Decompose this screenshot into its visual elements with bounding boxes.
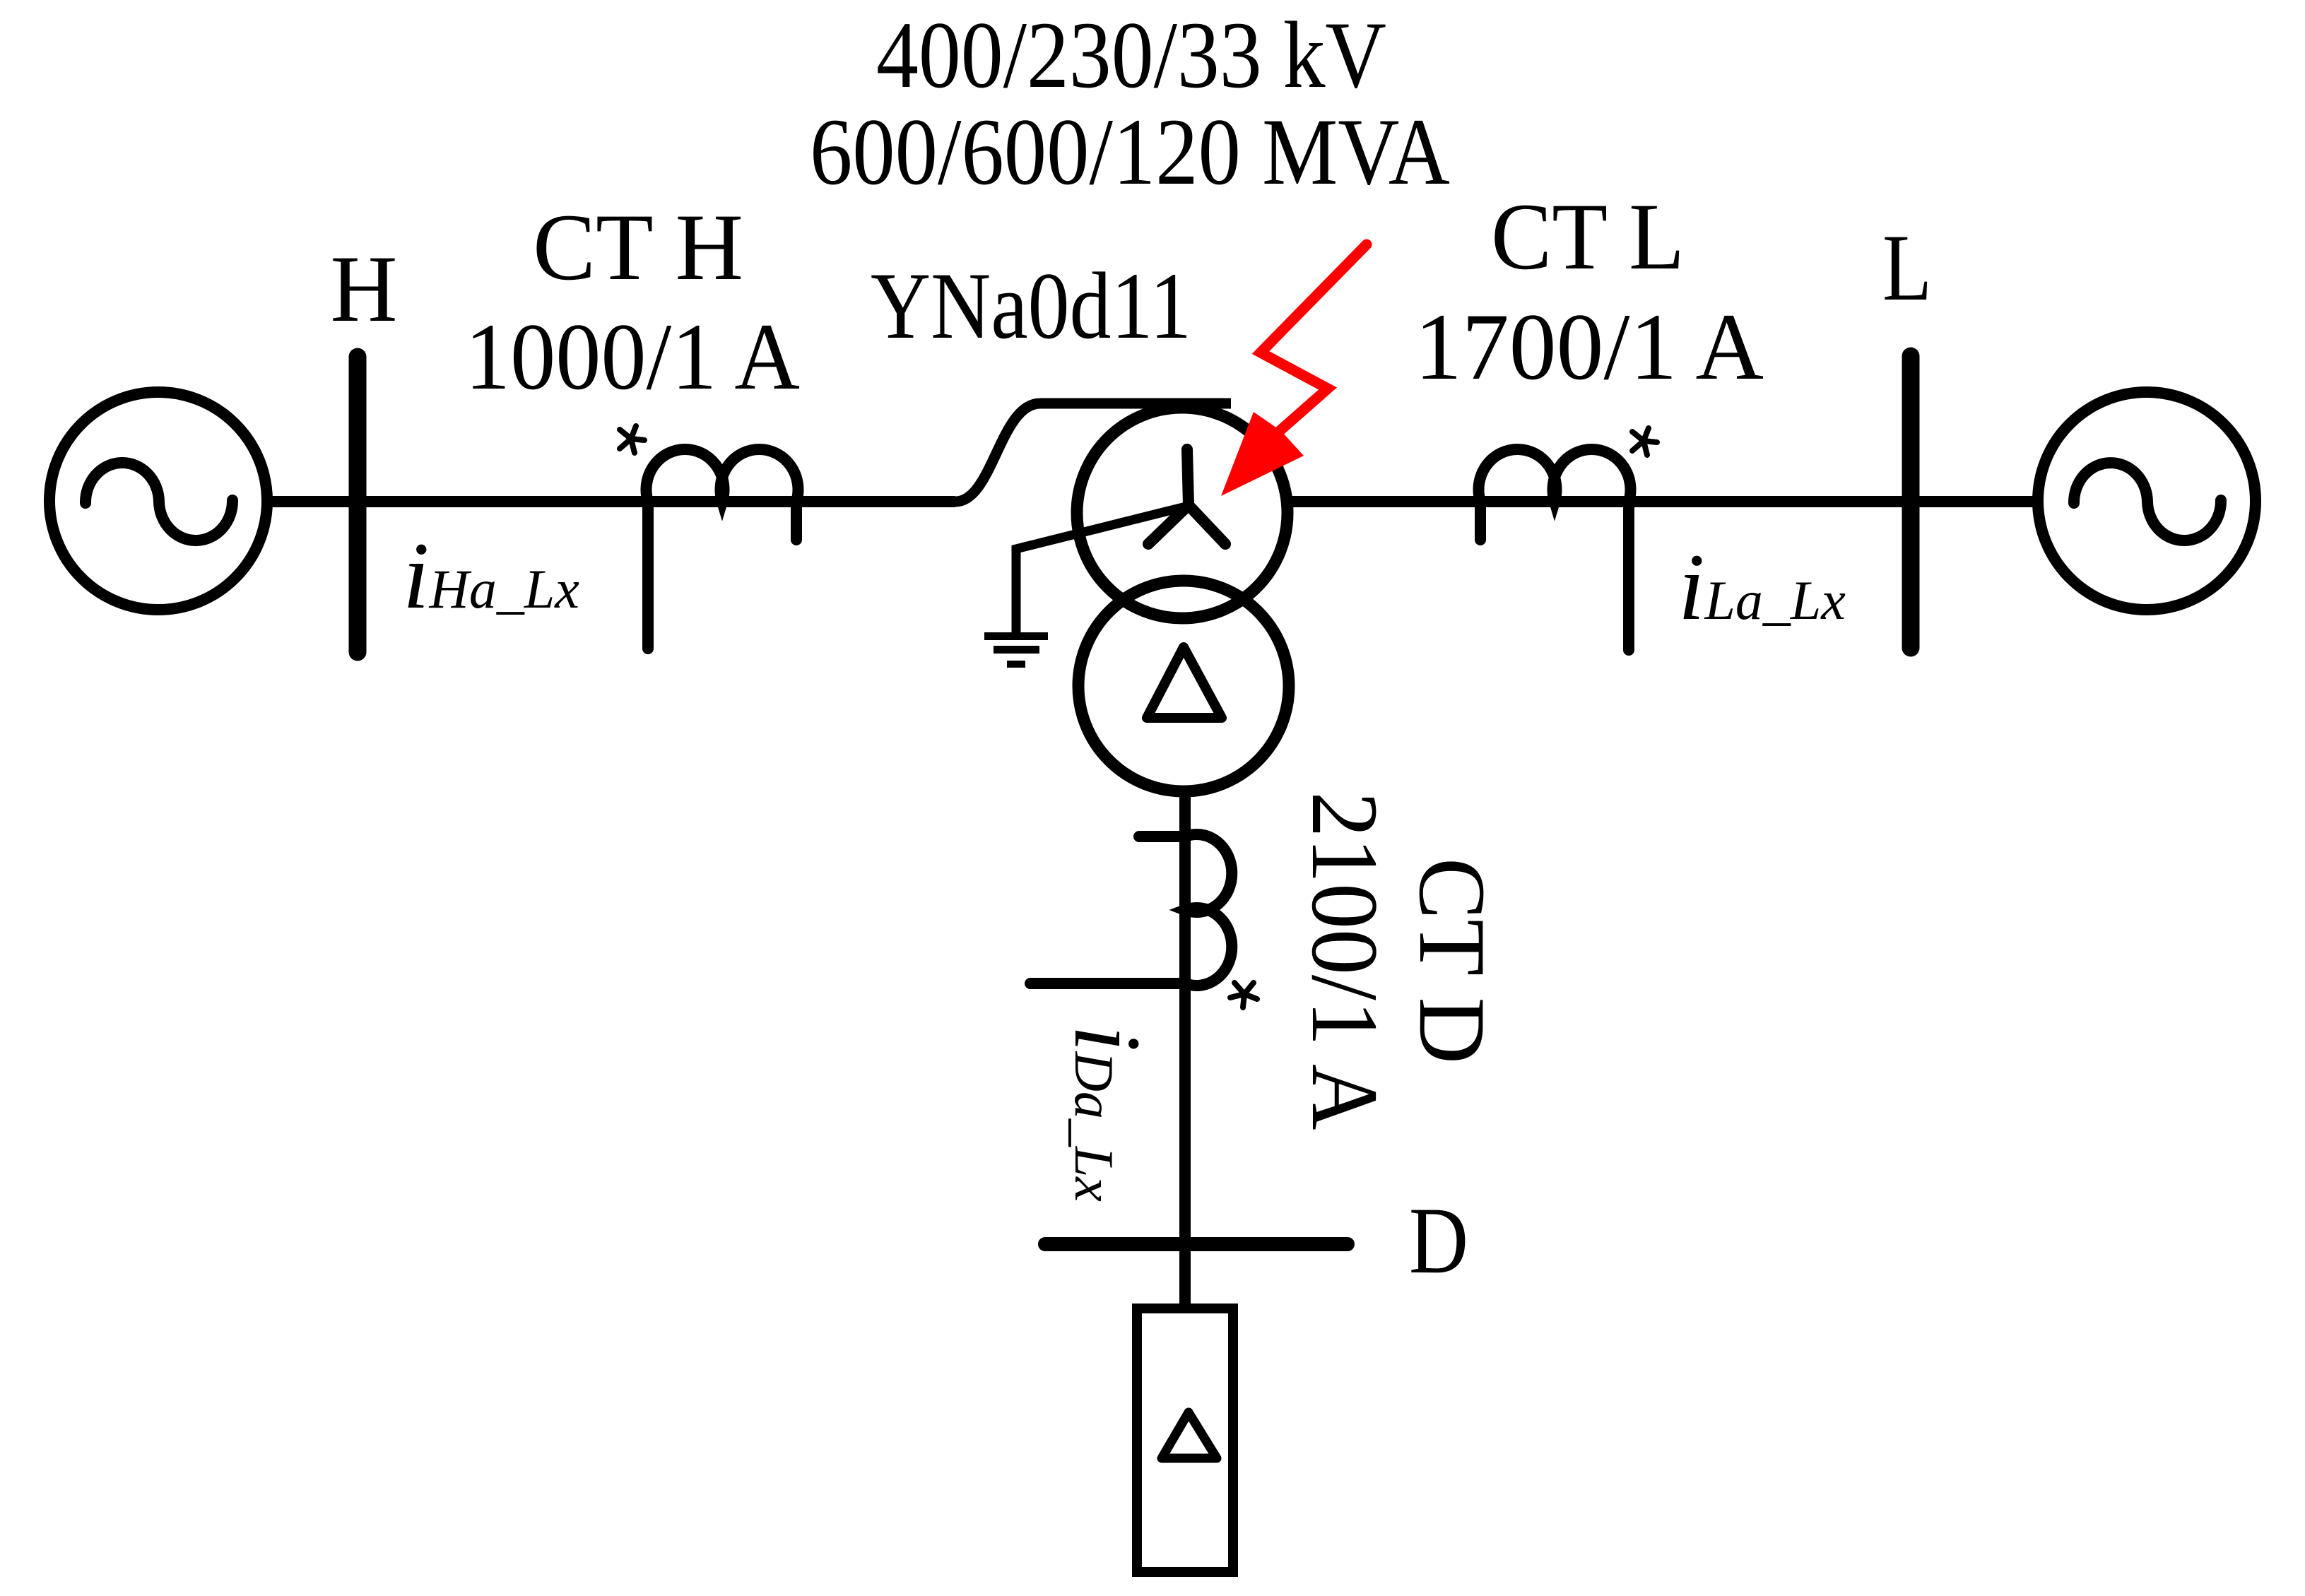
svg-text:D: D bbox=[1409, 1188, 1468, 1294]
wire: G1 to transformer (H side) bbox=[267, 496, 955, 507]
source G1 sine symbol bbox=[86, 463, 232, 540]
svg-text:L: L bbox=[1882, 215, 1932, 321]
svg-text:YNa0d11: YNa0d11 bbox=[871, 254, 1191, 359]
delta symbol bbox=[1147, 647, 1222, 718]
svg-text:600/600/120 MVA: 600/600/120 MVA bbox=[810, 100, 1450, 205]
svg-text:1000/1 A: 1000/1 A bbox=[465, 305, 800, 410]
wire: transformer bottom (D side) bbox=[1179, 791, 1191, 1308]
svg-text:CT L: CT L bbox=[1491, 184, 1685, 290]
ground symbol bbox=[984, 632, 1048, 668]
source G1 (left generator circle) bbox=[49, 392, 267, 610]
load (rectangle with delta) bbox=[1137, 1308, 1233, 1572]
transformer Y winding circle bbox=[1077, 408, 1287, 618]
svg-text:H: H bbox=[331, 237, 398, 342]
CT L polarity mark * bbox=[1632, 428, 1657, 455]
busbar D bbox=[1045, 1237, 1348, 1251]
svg-text:2100/1 A: 2100/1 A bbox=[1292, 792, 1397, 1130]
Y (wye) symbol bbox=[1148, 449, 1225, 544]
load delta symbol bbox=[1162, 1412, 1217, 1458]
svg-text:CT H: CT H bbox=[533, 195, 743, 300]
wire: transformer right (L side) bbox=[1287, 496, 2038, 507]
CT L (current transformer, short tail left, long tail right) bbox=[1479, 449, 1631, 650]
CT H polarity mark * bbox=[620, 426, 644, 453]
busbar H bbox=[349, 357, 367, 652]
svg-text:400/230/33 kV: 400/230/33 kV bbox=[876, 3, 1386, 108]
source G2 (right generator circle) bbox=[2038, 392, 2256, 610]
neutral wire to ground bbox=[1016, 506, 1189, 633]
svg-text:1700/1 A: 1700/1 A bbox=[1415, 295, 1764, 400]
red fault arrow (lightning bolt) bbox=[1221, 244, 1367, 496]
wire: S-curve rising over transformer to top of Y circle bbox=[955, 403, 1231, 502]
svg-text:CT D: CT D bbox=[1399, 858, 1504, 1064]
transformer delta winding circle bbox=[1078, 581, 1289, 791]
busbar L bbox=[1902, 356, 1920, 648]
source G2 sine symbol bbox=[2074, 463, 2221, 540]
CT D polarity mark * bbox=[1230, 983, 1257, 1007]
CT H (current transformer, two humps, long tail left, short tail right) bbox=[647, 449, 798, 649]
CT D (rotated current transformer, humps bulge right) bbox=[1030, 834, 1232, 986]
